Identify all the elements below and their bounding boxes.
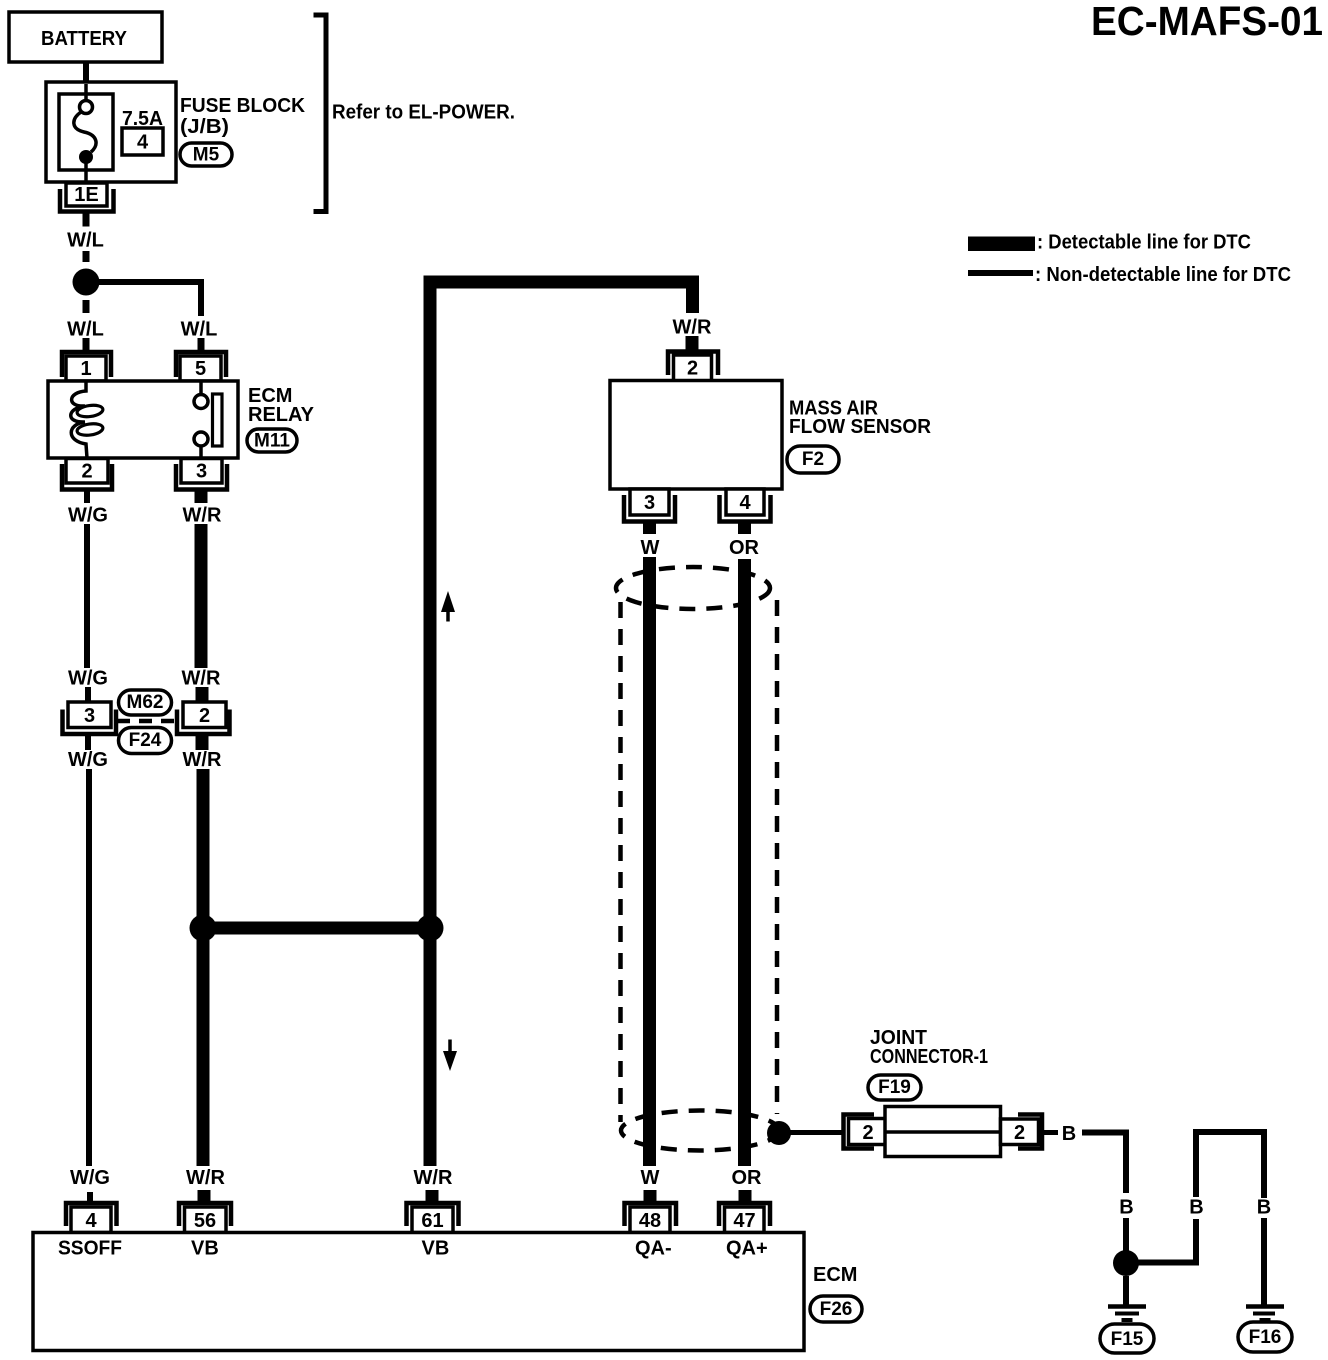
svg-text:: Detectable line for DTC: : Detectable line for DTC [1037,232,1251,254]
wire fuse to 1E [84,160,88,184]
relay pin 1 connector [62,352,111,377]
svg-text:3: 3 [196,461,207,483]
ground F16 [1246,1304,1284,1309]
relay contact circle upper [194,395,208,409]
node shield ground dot [767,1121,791,1145]
svg-text:2: 2 [862,1122,873,1144]
svg-text:W/L: W/L [181,319,218,341]
ECM pin 48 connector [625,1203,677,1226]
wire B into ground node [1123,1218,1129,1252]
svg-text:EC-MAFS-01: EC-MAFS-01 [1091,0,1323,44]
svg-text:W/L: W/L [67,230,104,252]
svg-text:W: W [641,1167,660,1189]
relay contact wire pin3 [199,446,203,458]
MAFS pin 4 connector [726,489,764,515]
shield dashed bottom ellipse [621,1111,779,1151]
svg-text:RELAY: RELAY [248,404,315,426]
relay pin 2 connector [66,459,108,484]
wire B dot to ground F15 [1123,1276,1129,1306]
connector F2 oval [787,446,839,473]
wire OR stub into ECM pin 47 [739,1190,752,1203]
mass air flow sensor box [610,381,782,490]
wire W/R stub into ECM pin 56 [198,1190,211,1203]
svg-text:W/G: W/G [68,749,108,771]
svg-text:M62: M62 [127,692,164,713]
svg-text:F16: F16 [1249,1327,1282,1348]
wire stub out of joint connector [1042,1130,1058,1135]
svg-text:4: 4 [137,132,149,154]
joint connector body [885,1107,1001,1157]
fuse symbol circle [80,101,93,114]
svg-text:3: 3 [644,492,655,514]
relay contact circle lower [194,432,208,446]
svg-text:W/R: W/R [186,1167,225,1189]
svg-text:OR: OR [729,537,760,559]
ECM relay box [48,381,238,458]
svg-text:FUSE BLOCK: FUSE BLOCK [180,95,306,117]
wire W/G stub below relay [84,488,90,504]
svg-text:B: B [1119,1197,1133,1219]
arrow up on VB bus [441,591,455,612]
connector F19 oval [868,1075,921,1100]
svg-text:4: 4 [739,492,751,514]
svg-text:5: 5 [195,358,206,380]
svg-text:B: B [1062,1123,1076,1145]
svg-text:M5: M5 [193,145,220,166]
ECM box [33,1233,804,1351]
legend detectable thick line sample [968,237,1035,252]
connector 1E box [66,183,107,206]
svg-text:2: 2 [1014,1122,1025,1144]
relay coil [71,381,87,458]
svg-text:FLOW SENSOR: FLOW SENSOR [789,416,932,438]
wire W/G long run to ECM [86,769,92,1166]
wire OR stub [738,520,751,535]
shield dashed right side [775,600,780,1114]
connector M11 oval [247,429,297,452]
svg-text:QA-: QA- [635,1238,672,1260]
svg-text:F26: F26 [820,1299,853,1320]
svg-text:W/R: W/R [414,1167,453,1189]
svg-text:VB: VB [191,1238,219,1260]
wire W stub [643,520,656,535]
wire W/R stub below connector 2 [196,734,209,750]
relay pin 3 connector [181,459,222,484]
joint connector left bracket [844,1115,875,1149]
fuse block outer box [46,82,176,182]
ECM pin 4 connector [66,1203,117,1226]
wire stub to MAFS pin 2 [686,336,699,353]
relay pin 5 connector [176,352,226,377]
node junction dot VB bus [417,915,444,942]
svg-text:CONNECTOR-1: CONNECTOR-1 [870,1046,988,1068]
wire W/G stub below connector 3 [85,734,91,750]
svg-text:W/L: W/L [67,319,104,341]
fuse symbol bottom dot [79,150,93,164]
svg-text:F24: F24 [129,730,162,751]
fuse F inner box [59,94,113,170]
connector F26 oval [810,1296,862,1322]
svg-text:W/R: W/R [673,317,712,339]
connector F15 oval [1100,1324,1154,1353]
svg-text:W/G: W/G [68,505,108,527]
wire stub to relay pin 1 [83,338,90,353]
connector M5 oval [180,143,232,166]
svg-text:W/G: W/G [70,1167,110,1189]
svg-text:1E: 1E [74,184,98,206]
wire battery to fuse block [83,62,89,84]
wire W stub into ECM pin 48 [644,1190,657,1203]
wire W/L below 1E [83,213,90,227]
node junction dot W/L [73,269,100,296]
svg-text:Refer to EL-POWER.: Refer to EL-POWER. [332,102,515,124]
svg-text:W/R: W/R [183,505,222,527]
wire B dot to middle vertical [1137,1219,1196,1263]
wire W/R stub below relay [195,488,208,504]
node junction dot W/R bus [190,915,217,942]
legend non-detectable thin line sample [968,270,1033,276]
wire W/R long run to ECM [197,769,210,1166]
relay contact wire pin5 [199,381,203,394]
svg-text:W/G: W/G [68,668,108,690]
ground F15 [1108,1304,1146,1309]
wire B to ground F16 [1261,1218,1267,1306]
connector 3 box (M62/F24 left) [68,702,111,728]
battery B1 box [9,12,162,62]
svg-text:W: W [641,537,660,559]
svg-text:(J/B): (J/B) [180,116,229,138]
wire B first run [1082,1133,1126,1194]
svg-text:F19: F19 [878,1077,911,1098]
wire OR run to ECM [738,559,751,1166]
shield dashed left side [618,602,623,1122]
svg-text:B: B [1257,1197,1271,1219]
ECM pin 56 connector [179,1203,231,1226]
ECM pin 47 connector [719,1203,770,1226]
svg-text:QA+: QA+ [726,1238,768,1260]
connector 1E bracket [60,189,114,212]
svg-text:2: 2 [687,358,698,380]
fuse number box 4 [122,128,163,155]
svg-text:: Non-detectable line for DTC: : Non-detectable line for DTC [1035,264,1291,286]
wire W/G stub into connector [85,687,91,703]
wire W/L dash below node [83,300,90,313]
connector 2 box (M62/F24 right) [183,702,226,728]
shield dashed top ellipse [616,567,770,609]
svg-text:4: 4 [85,1210,97,1232]
relay contact bar [213,394,223,446]
wire stub to relay pin 5 [198,338,205,353]
bracket refer [314,15,327,212]
svg-text:M11: M11 [254,431,290,452]
svg-text:W/R: W/R [182,668,221,690]
svg-text:1: 1 [80,358,91,380]
arrow down on VB bus [448,1040,452,1052]
connector M62 oval [119,690,172,715]
wire W/R run [195,524,208,668]
svg-text:47: 47 [733,1210,755,1232]
wire W run to ECM [643,557,656,1166]
fuse symbol S-curve element [74,112,96,152]
joint connector pin 2 right [1001,1119,1039,1145]
wire W/R stub into connector [196,687,209,703]
MAFS pin 3 connector [630,489,669,515]
dashed mating line M62/F24 [117,719,176,724]
wire shield to joint connector [789,1130,843,1135]
wire W/R stub into ECM pin 61 [426,1190,439,1203]
svg-text:BATTERY: BATTERY [41,28,128,50]
svg-text:61: 61 [421,1210,443,1232]
svg-text:56: 56 [194,1210,216,1232]
svg-text:SSOFF: SSOFF [58,1238,122,1260]
wire thick VB bus vertical and top run to MAFS [430,282,693,1166]
wire B middle up and over to right [1196,1132,1264,1198]
svg-text:F15: F15 [1111,1329,1144,1350]
wire W/L dash above node [83,251,90,262]
node junction dot B [1113,1250,1139,1276]
connector F16 oval [1238,1322,1292,1352]
svg-text:48: 48 [639,1210,661,1232]
svg-text:2: 2 [199,705,210,727]
svg-text:B: B [1189,1197,1203,1219]
wire W/G run [84,524,90,668]
joint connector pin 2 left [849,1119,888,1145]
wire thick bus between dots [203,922,430,935]
svg-text:ECM: ECM [813,1264,857,1286]
svg-text:W/R: W/R [183,749,222,771]
wire branch node to relay pin 5 [96,282,201,316]
wire into fuse [84,84,88,101]
joint connector right bracket [1018,1115,1042,1149]
svg-text:F2: F2 [802,449,824,470]
svg-text:OR: OR [732,1167,763,1189]
MAFS pin 2 connector [668,352,718,376]
connector F24 oval [119,728,172,754]
svg-text:3: 3 [84,705,95,727]
svg-text:VB: VB [422,1238,450,1260]
ECM pin 61 connector [407,1203,459,1226]
svg-text:2: 2 [81,461,92,483]
wire W/G stub into ECM pin 4 [87,1192,93,1205]
